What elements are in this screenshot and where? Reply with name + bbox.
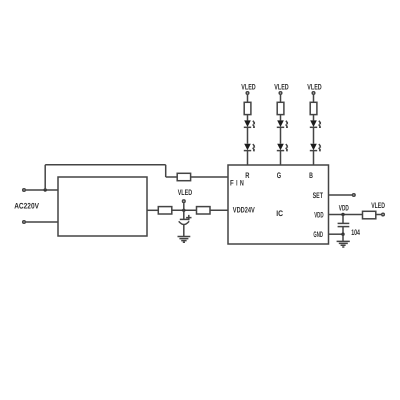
node VDD junction [341, 213, 344, 216]
resistor to VDD24V [197, 207, 211, 214]
terminal VLED column G [279, 92, 282, 95]
wire LED1 to LED2 column R [247, 127, 249, 143]
wire SET pin out [329, 194, 353, 196]
wire resistor to LED1 B column [313, 115, 315, 121]
resistor after power box [158, 207, 172, 214]
svg-text:VLED: VLED [307, 83, 322, 92]
terminal SET [353, 194, 356, 197]
wire cap to ground [183, 224, 185, 236]
capacitor 104 top lead [342, 215, 344, 224]
wire junction up [44, 165, 46, 190]
LED D1 column R [244, 120, 256, 128]
wire terminal to resistor R column [247, 95, 249, 102]
resistor column G [277, 102, 284, 114]
node junction on AC top wire [44, 188, 47, 191]
svg-text:VLED: VLED [178, 188, 193, 197]
wire resistor to VLED terminal [376, 214, 381, 216]
capacitor C-elec lead [183, 210, 185, 219]
wire LED2 to IC pin G [280, 151, 282, 165]
ground symbol left [178, 237, 191, 243]
wire terminal to resistor B column [313, 95, 315, 102]
terminal VLED mid [183, 200, 186, 203]
terminal AC input bottom [23, 221, 26, 224]
wire GND pin out [329, 233, 344, 235]
svg-text:SET: SET [313, 191, 323, 200]
IC U1 box [228, 165, 329, 244]
node VLED junction [182, 209, 185, 212]
svg-text:B: B [309, 171, 313, 180]
terminal VLED right [382, 213, 385, 216]
svg-text:VLED: VLED [274, 83, 289, 92]
terminal AC input top [23, 189, 26, 192]
svg-text:G: G [277, 171, 281, 180]
wire top horizontal run [45, 164, 166, 166]
svg-text:F: F [230, 178, 234, 187]
wire AC top to power box [26, 189, 58, 191]
ground symbol right [337, 241, 350, 247]
LED D4 column G [277, 144, 289, 152]
capacitor 104 bottom plate [338, 226, 350, 228]
LED D5 column B [310, 120, 322, 128]
svg-text:VDD: VDD [314, 210, 324, 219]
power supply box [58, 177, 147, 236]
svg-text:N: N [240, 178, 244, 187]
svg-text:I: I [236, 178, 237, 187]
LED D2 column R [244, 144, 256, 152]
wire GND down [342, 234, 344, 241]
svg-text:VLED: VLED [241, 83, 256, 92]
svg-text:AC220V: AC220V [14, 202, 39, 211]
resistor column R [244, 102, 251, 114]
terminal VLED column R [246, 92, 249, 95]
wire power box out [147, 209, 158, 211]
wire AC bottom to power box [26, 221, 58, 223]
svg-text:VDD24V: VDD24V [233, 205, 255, 214]
wire LED1 to LED2 column G [280, 127, 282, 143]
svg-text:R: R [245, 171, 249, 180]
wire terminal to resistor G column [280, 95, 282, 102]
wire resistor to LED1 R column [247, 115, 249, 121]
wire to VLED node [172, 209, 197, 211]
capacitor C-elec curved plate [179, 221, 189, 224]
LED D6 column B [310, 144, 322, 152]
svg-text:VLED: VLED [371, 201, 385, 210]
wire resistor to FIN pin [191, 176, 228, 178]
capacitor C-elec top plate [180, 218, 189, 220]
wire VDD pin out [329, 214, 363, 216]
svg-text:IC: IC [276, 209, 283, 218]
wire down to FIN line [165, 165, 167, 177]
wire LED2 to IC pin R [247, 151, 249, 165]
capacitor C-elec plus sign [186, 215, 191, 220]
wire to FIN resistor [166, 176, 178, 178]
wire resistor to LED1 G column [280, 115, 282, 121]
capacitor 104 top plate [338, 222, 350, 224]
resistor on VLED output [363, 211, 376, 219]
wire resistor to VDD24V pin [210, 209, 228, 211]
resistor on FIN line [177, 173, 190, 180]
terminal VLED column B [312, 92, 315, 95]
resistor column B [310, 102, 317, 114]
LED D3 column G [277, 120, 289, 128]
wire LED1 to LED2 column B [313, 127, 315, 143]
svg-text:VDD: VDD [339, 203, 349, 212]
svg-text:104: 104 [351, 228, 360, 237]
wire LED2 to IC pin B [313, 151, 315, 165]
svg-text:GND: GND [313, 230, 323, 239]
node GND junction [341, 233, 344, 236]
capacitor 104 bottom lead [342, 227, 344, 235]
wire VLED terminal down [183, 203, 185, 210]
